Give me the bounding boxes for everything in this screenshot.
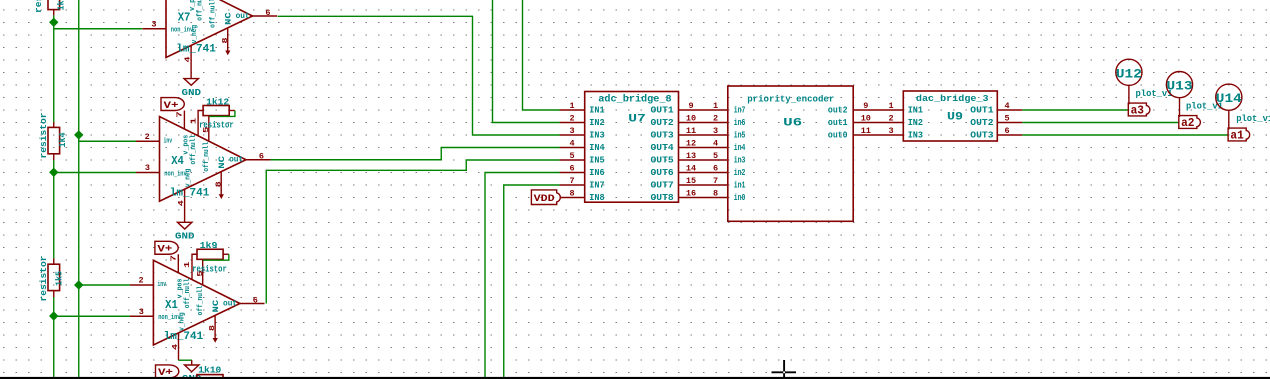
svg-text:OUT3: OUT3 — [970, 131, 993, 141]
svg-text:OUT2: OUT2 — [651, 118, 674, 128]
svg-text:IN4: IN4 — [589, 143, 605, 153]
svg-text:OUT4: OUT4 — [651, 143, 675, 153]
svg-text:IN3: IN3 — [589, 131, 604, 141]
svg-text:7: 7 — [569, 176, 574, 186]
svg-text:X4: X4 — [171, 154, 184, 168]
X7 pin 6 output stub — [253, 15, 278, 17]
U7 pin 5 IN5 stub — [560, 159, 585, 161]
svg-text:resistor: resistor — [39, 113, 49, 159]
U14 pin stub — [1228, 110, 1230, 129]
svg-text:plot_v1: plot_v1 — [1236, 114, 1270, 124]
net label a3 — [1128, 103, 1150, 116]
X1 pin 7 v_pos — [177, 254, 179, 272]
power flag V+ for X1 — [155, 241, 178, 254]
svg-text:inv: inv — [170, 0, 179, 2]
svg-text:in7: in7 — [734, 106, 746, 116]
svg-text:OUT1: OUT1 — [970, 106, 994, 116]
svg-text:11: 11 — [861, 126, 871, 136]
X1 pin 3 stub — [130, 315, 154, 317]
svg-text:2: 2 — [145, 132, 150, 142]
junction on bus — [74, 130, 83, 139]
X1 pin 8 NC — [214, 316, 216, 340]
svg-text:a1: a1 — [1230, 129, 1243, 142]
svg-text:6: 6 — [253, 295, 258, 305]
svg-text:13: 13 — [686, 151, 696, 161]
canvas bottom border — [0, 377, 1270, 379]
wire from top to IN2 — [493, 0, 560, 123]
svg-text:off_null: off_null — [184, 279, 192, 309]
svg-text:V+: V+ — [164, 100, 179, 112]
svg-text:1: 1 — [184, 261, 192, 268]
svg-text:3: 3 — [569, 126, 574, 136]
svg-text:V+: V+ — [157, 244, 172, 256]
net label a1 — [1228, 128, 1250, 141]
U6 pin 11 out0 stub / U9 pin 3 IN3 stub — [853, 134, 903, 136]
U9 pin 5 OUT2 stub — [997, 122, 1022, 124]
X7 pin 4 v_neg — [190, 46, 192, 79]
svg-text:U13: U13 — [1167, 80, 1193, 94]
svg-text:lm_741: lm_741 — [176, 44, 216, 56]
U13 pin stub — [1179, 98, 1181, 117]
svg-text:4: 4 — [1004, 101, 1009, 111]
U7 pin 7 IN7 stub — [560, 184, 585, 186]
resistor R 1k4 — [48, 127, 60, 153]
wire to a2 — [1022, 122, 1178, 124]
svg-text:IN1: IN1 — [589, 106, 605, 116]
svg-text:1k9: 1k9 — [200, 241, 218, 251]
svg-text:6: 6 — [259, 152, 264, 162]
junction node in7 wire — [49, 18, 58, 27]
wire vertical bus x=78.75 — [78, 0, 80, 379]
svg-text:NC: NC — [225, 12, 234, 25]
offset-null resistor body of X1 — [197, 249, 223, 259]
resistor left lead to pin 1 — [198, 111, 203, 136]
svg-text:OUT7: OUT7 — [651, 181, 674, 191]
X7 pin 3 stub — [143, 28, 167, 30]
svg-text:adc_bridge_8: adc_bridge_8 — [598, 94, 671, 105]
U9 pin 4 OUT1 stub — [997, 109, 1022, 111]
ground symbol X4 — [178, 222, 192, 229]
svg-text:off_null: off_null — [197, 0, 205, 21]
U7 pin 9 OUT1 stub / U6 pin 1 in7 stub — [679, 109, 728, 111]
svg-text:X1: X1 — [165, 298, 178, 312]
X4 pin 3 stub — [136, 172, 160, 174]
svg-text:inv: inv — [164, 137, 173, 145]
power flag V+ (4th stage, clipped) — [156, 365, 179, 378]
svg-text:NC: NC — [218, 156, 227, 169]
X4 pin 5 off_null — [208, 116, 210, 140]
global label VDD — [531, 190, 560, 205]
svg-text:out: out — [236, 12, 250, 21]
U7 pin 14 OUT6 stub / U6 pin 6 in2 stub — [679, 172, 728, 174]
svg-text:1k4: 1k4 — [58, 132, 68, 148]
svg-text:IN5: IN5 — [589, 156, 604, 166]
X1 pin4 lower lead — [191, 360, 193, 365]
U7 pin 10 OUT2 stub / U6 pin 2 in6 stub — [679, 122, 728, 124]
svg-text:10: 10 — [686, 113, 696, 123]
wire — [53, 297, 55, 379]
U12 pin stub — [1128, 85, 1130, 104]
svg-text:4: 4 — [713, 138, 718, 148]
svg-text:lm_741: lm_741 — [170, 187, 210, 199]
svg-text:U12: U12 — [1116, 67, 1142, 81]
svg-text:1: 1 — [569, 101, 574, 111]
svg-text:U7: U7 — [628, 113, 646, 125]
X1 pin 6 output stub — [240, 303, 265, 305]
svg-text:off_null: off_null — [197, 286, 205, 316]
svg-text:2: 2 — [569, 113, 574, 123]
svg-text:8: 8 — [215, 181, 223, 188]
resistor left lead to pin 1 — [192, 254, 197, 279]
X4 pin 7 v_pos — [183, 111, 185, 129]
svg-text:resistor: resistor — [34, 0, 44, 13]
svg-text:out1: out1 — [828, 118, 848, 128]
svg-text:8: 8 — [209, 324, 217, 331]
svg-text:U9: U9 — [947, 112, 963, 124]
X1 pin 5 off_null — [202, 260, 204, 284]
svg-text:8: 8 — [569, 188, 574, 198]
svg-text:1: 1 — [713, 101, 718, 111]
resistor right lead — [223, 253, 229, 255]
U6 pin 10 out1 stub / U9 pin 2 IN2 stub — [853, 122, 903, 124]
U7 pin 1 IN1 stub — [560, 109, 585, 111]
X7 pin 8 NC — [227, 28, 229, 52]
svg-text:7: 7 — [177, 111, 185, 118]
svg-text:IN7: IN7 — [589, 181, 604, 191]
U7 pin 13 OUT5 stub / U6 pin 5 in3 stub — [679, 159, 728, 161]
X1 pin 4 lead — [178, 333, 180, 360]
svg-text:IN2: IN2 — [908, 118, 923, 128]
offset-null resistor body of X4 — [203, 106, 229, 116]
svg-text:v_neg: v_neg — [191, 25, 199, 43]
wire X7 non-inv input — [54, 28, 143, 30]
svg-text:U6: U6 — [783, 117, 802, 129]
svg-text:OUT3: OUT3 — [651, 131, 674, 141]
wire to a3 — [1022, 109, 1127, 111]
svg-text:in4: in4 — [734, 143, 746, 153]
svg-text:priority_encoder: priority_encoder — [747, 94, 834, 105]
svg-text:out2: out2 — [828, 106, 848, 116]
power flag V+ for X4 — [161, 98, 184, 111]
svg-text:6: 6 — [265, 8, 270, 18]
svg-text:in2: in2 — [734, 168, 746, 178]
X4 pin 4 v_neg — [184, 189, 186, 222]
IC U7 adc_bridge_8 box — [585, 92, 679, 203]
IC U6 priority_encoder box — [728, 86, 853, 221]
U7 pin 3 IN3 stub — [560, 134, 585, 136]
U7 pin 8 IN8 stub — [560, 197, 585, 199]
svg-text:GND: GND — [175, 231, 195, 242]
pin 7 lead 4th stage — [178, 378, 180, 379]
svg-text:8: 8 — [713, 188, 718, 198]
U7 pin 15 OUT7 stub / U6 pin 7 in1 stub — [679, 184, 728, 186]
wire X1 out to IN5 — [266, 160, 560, 304]
U7 pin 2 IN2 stub — [560, 122, 585, 124]
svg-text:v_neg: v_neg — [184, 169, 192, 187]
wire from bottom to IN6 — [485, 173, 560, 379]
svg-text:IN1: IN1 — [908, 106, 924, 116]
svg-text:1k3: 1k3 — [56, 0, 66, 11]
svg-text:IN2: IN2 — [589, 118, 604, 128]
junction X1 pin3 — [49, 311, 58, 320]
svg-text:lm_741: lm_741 — [164, 331, 204, 343]
svg-text:2: 2 — [888, 113, 893, 123]
svg-text:OUT8: OUT8 — [651, 193, 674, 203]
svg-text:off_null: off_null — [203, 142, 211, 172]
probe U13 plot_v1 circle — [1166, 72, 1192, 98]
svg-text:OUT1: OUT1 — [651, 106, 675, 116]
resistor R_top (cut at top edge) — [48, 0, 60, 10]
svg-text:in1: in1 — [734, 181, 746, 191]
svg-text:6: 6 — [1004, 126, 1009, 136]
svg-text:out: out — [223, 299, 237, 308]
wire resistor to pin 5 — [209, 111, 235, 117]
svg-text:off_null: off_null — [190, 135, 198, 165]
wire to a1 — [1022, 134, 1227, 136]
probe U12 plot_v1 circle — [1116, 59, 1142, 85]
X1 pin 2 stub — [130, 284, 154, 286]
U7 pin 16 OUT8 stub / U6 pin 8 in0 stub — [679, 197, 728, 199]
wire X4 out to IN4 — [271, 148, 560, 160]
svg-text:12: 12 — [686, 138, 696, 148]
svg-text:1: 1 — [888, 101, 893, 111]
svg-text:14: 14 — [686, 163, 696, 173]
svg-text:5: 5 — [1004, 113, 1009, 123]
svg-text:6: 6 — [713, 163, 718, 173]
net label a2 — [1179, 116, 1201, 129]
U9 pin 6 OUT3 stub — [997, 134, 1022, 136]
svg-text:U14: U14 — [1216, 92, 1243, 106]
svg-text:resistor: resistor — [192, 264, 227, 274]
U7 pin 11 OUT3 stub / U6 pin 3 in5 stub — [679, 134, 728, 136]
svg-text:OUT2: OUT2 — [970, 118, 993, 128]
IC U9 dac_bridge_3 box — [903, 91, 997, 141]
svg-text:a2: a2 — [1181, 117, 1194, 130]
junction X4 pin3 — [49, 168, 58, 177]
svg-text:6: 6 — [569, 163, 574, 173]
svg-text:5: 5 — [569, 151, 574, 161]
svg-text:VDD: VDD — [534, 193, 555, 205]
svg-text:1k10: 1k10 — [198, 366, 221, 376]
resistor R 1k5 — [48, 264, 60, 290]
svg-text:IN6: IN6 — [589, 168, 604, 178]
svg-text:IN8: IN8 — [589, 193, 604, 203]
resistor 1k10 (clipped) — [197, 375, 223, 379]
svg-text:IN3: IN3 — [908, 131, 923, 141]
wire — [53, 160, 55, 258]
svg-text:dac_bridge_3: dac_bridge_3 — [916, 93, 989, 104]
svg-text:3: 3 — [713, 126, 718, 136]
svg-text:7: 7 — [713, 176, 718, 186]
svg-text:4: 4 — [569, 138, 574, 148]
svg-text:10: 10 — [861, 113, 871, 123]
X4 pin 8 NC — [220, 172, 222, 196]
svg-text:resistor: resistor — [39, 256, 49, 302]
editing crosshair cursor — [772, 360, 797, 379]
svg-text:8: 8 — [222, 37, 230, 44]
svg-text:16: 16 — [686, 188, 696, 198]
svg-text:off_null: off_null — [209, 0, 217, 28]
U7 pin 4 IN4 stub — [560, 147, 585, 149]
U6 pin 9 out2 stub / U9 pin 1 IN1 stub — [853, 109, 903, 111]
svg-text:OUT6: OUT6 — [651, 168, 674, 178]
svg-text:1: 1 — [190, 117, 198, 124]
wire from bottom to IN7 — [504, 185, 560, 379]
wire — [53, 15, 55, 122]
svg-text:3: 3 — [139, 307, 144, 317]
svg-text:3: 3 — [145, 163, 150, 173]
U7 pin 12 OUT4 stub / U6 pin 4 in4 stub — [679, 147, 728, 149]
svg-text:in0: in0 — [734, 193, 746, 203]
wire X1 pin2 — [79, 284, 130, 286]
svg-text:resistor: resistor — [199, 121, 234, 131]
svg-text:3: 3 — [888, 126, 893, 136]
svg-text:2: 2 — [139, 276, 144, 286]
svg-text:v_neg: v_neg — [178, 312, 186, 330]
op-amp X1 lm_741 triangle — [153, 260, 240, 345]
svg-text:5: 5 — [713, 151, 718, 161]
svg-text:7: 7 — [170, 255, 178, 262]
svg-text:X7: X7 — [178, 10, 191, 24]
U7 pin 6 IN6 stub — [560, 172, 585, 174]
svg-text:15: 15 — [686, 176, 696, 186]
wire from top to IN1 — [523, 0, 560, 110]
svg-text:2: 2 — [713, 113, 718, 123]
svg-text:out: out — [229, 156, 243, 165]
svg-text:in5: in5 — [734, 131, 746, 141]
svg-text:in3: in3 — [734, 156, 746, 166]
probe U14 plot_v1 circle — [1216, 84, 1242, 110]
junction X1 pin2 — [74, 280, 83, 289]
svg-text:inv: inv — [157, 281, 166, 289]
wire X4 pin3 — [54, 172, 136, 174]
svg-text:1k12: 1k12 — [206, 98, 229, 108]
svg-text:3: 3 — [151, 19, 156, 29]
wire X1 pin3 — [54, 315, 130, 317]
resistor right lead — [229, 110, 235, 112]
op-amp X7 lm_741 triangle — [166, 0, 253, 58]
ground symbol X7 — [184, 79, 198, 86]
wire X7 out to IN3 — [278, 16, 560, 135]
svg-text:11: 11 — [686, 126, 696, 136]
svg-text:1k5: 1k5 — [55, 271, 65, 286]
ground symbol X1 — [185, 365, 199, 372]
svg-text:out0: out0 — [828, 131, 848, 141]
svg-text:NC: NC — [212, 299, 221, 312]
svg-text:in6: in6 — [734, 118, 746, 128]
svg-text:9: 9 — [863, 101, 868, 111]
wire resistor to pin 5 — [203, 254, 229, 260]
svg-text:OUT5: OUT5 — [651, 156, 674, 166]
X4 pin 6 output stub — [246, 159, 271, 161]
svg-text:9: 9 — [688, 101, 693, 111]
wire gnd jog — [179, 359, 192, 361]
svg-text:a3: a3 — [1131, 104, 1144, 117]
svg-text:GND: GND — [182, 87, 202, 98]
op-amp X4 lm_741 triangle — [160, 117, 247, 202]
wire X4 pin2 — [79, 140, 136, 142]
X4 pin 2 stub — [136, 140, 160, 142]
